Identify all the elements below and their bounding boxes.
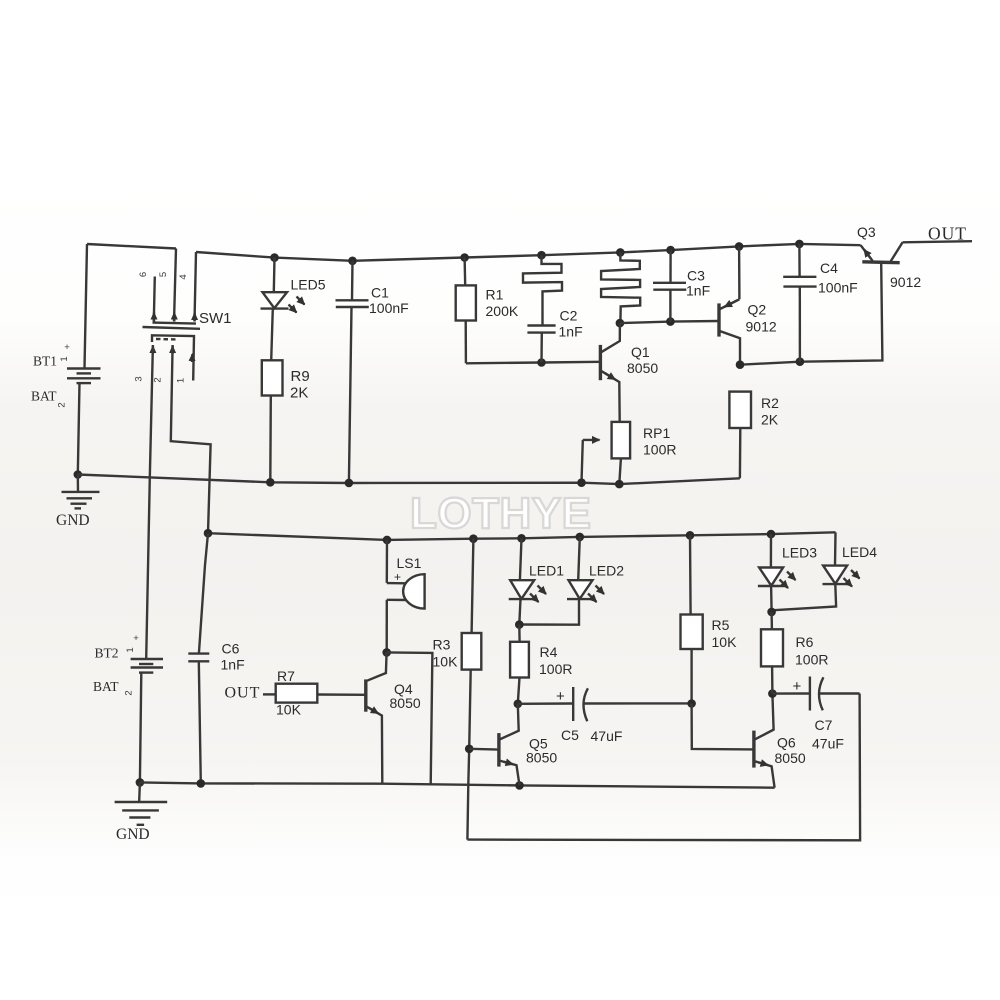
wire: SW1 pin 3 down to BT2 positive (146, 345, 153, 659)
svg-text:C4: C4 (820, 260, 838, 276)
switch SW1 (134, 249, 232, 384)
capacitor C6 (188, 533, 244, 783)
svg-text:1nF: 1nF (221, 657, 245, 673)
node: Q2 collector / R2 junction (736, 360, 745, 369)
svg-text:200K: 200K (486, 303, 519, 319)
SW1 pin 3 arrow (152, 346, 154, 354)
capacitor C3 (653, 250, 710, 322)
node: R6 / C7 / Q6 collector junction (768, 689, 777, 698)
SW1 slider dashed contact (156, 338, 176, 341)
svg-text:BT1: BT1 (33, 354, 57, 369)
svg-text:+: + (394, 570, 401, 584)
svg-text:8050: 8050 (775, 750, 806, 766)
svg-text:3: 3 (134, 376, 145, 381)
node: R5 / C5 / Q6 base junction (687, 699, 696, 708)
resistor R5 (681, 535, 738, 703)
wire: collector node over and down to emitter rail (387, 652, 433, 784)
battery BT2 (131, 659, 163, 673)
node: R3 / Q5 base junction (465, 745, 474, 754)
capacitor C5 (518, 687, 692, 744)
node: C3 bottom junction (666, 317, 675, 326)
SW1 body bracket (152, 335, 194, 380)
SW1 contact bar lower (143, 327, 201, 329)
node: R4 / C5 / Q5 collector junction (514, 700, 523, 709)
transistor Q1 (600, 323, 658, 422)
svg-text:9012: 9012 (746, 319, 777, 335)
node: R3 top junction (469, 534, 478, 543)
svg-text:OUT: OUT (225, 685, 261, 702)
battery BT1 (67, 369, 101, 384)
svg-text:C1: C1 (371, 285, 389, 301)
svg-text:9012: 9012 (890, 274, 921, 290)
wire: bottom rail of top section (78, 475, 740, 485)
svg-text:R6: R6 (796, 634, 814, 650)
resistor R6 (761, 612, 828, 694)
svg-text:C5: C5 (561, 727, 579, 743)
svg-text:+: + (133, 633, 139, 644)
SW1 pin 4 lead (195, 252, 197, 322)
svg-text:100nF: 100nF (369, 300, 409, 316)
BT1 pin 1 label with plus (59, 342, 70, 362)
transistor Q6 (754, 694, 806, 788)
transistor Q3 (857, 224, 921, 290)
node: SW1 pin2 / C6 junction (204, 529, 213, 538)
svg-text:10K: 10K (712, 634, 738, 650)
wire: BT1 negative lead down to ground node (78, 383, 80, 474)
svg-text:47uF: 47uF (812, 736, 844, 752)
svg-text:1: 1 (125, 647, 136, 652)
resistor R9 (262, 360, 310, 401)
svg-text:1: 1 (59, 356, 70, 361)
wire: feedback bottom rail to C7 negative (467, 694, 860, 841)
LED LED5 (261, 258, 326, 313)
LED LED4 (823, 532, 878, 586)
svg-text:8050: 8050 (627, 360, 658, 376)
svg-text:100R: 100R (795, 652, 828, 668)
svg-text:Q1: Q1 (631, 344, 650, 360)
SW1 pin 6 lead (154, 277, 155, 322)
svg-text:4: 4 (178, 274, 189, 279)
svg-text:2: 2 (57, 402, 68, 407)
wire: R9 to bottom rail (269, 396, 272, 483)
wire: LED4 cathode down and over to LED3 junction (772, 584, 836, 610)
SW1 contact bar upper (153, 323, 197, 324)
svg-text:OUT: OUT (928, 224, 967, 244)
wire: Q1 base line (466, 362, 601, 364)
SW1 pin 1 arrow (191, 354, 194, 362)
svg-text:RP1: RP1 (643, 425, 670, 441)
resistor R7 (263, 668, 366, 718)
wire: bottom rail (emitter rail) (140, 782, 775, 787)
resistor R2 (729, 392, 779, 479)
svg-text:C7: C7 (815, 717, 833, 733)
node: C2 / base junction (537, 358, 546, 367)
wire: BT2 negative lead to ground node (140, 673, 141, 783)
svg-text:100R: 100R (539, 661, 572, 677)
wire: BT1 positive lead up to top-left corner (85, 244, 88, 368)
resistor R4 (510, 625, 572, 704)
svg-text:BAT: BAT (93, 679, 119, 694)
wire: LED3 cathode to junction (770, 586, 773, 612)
svg-text:C3: C3 (687, 268, 705, 284)
svg-text:5: 5 (158, 272, 169, 277)
node: L1 top junction (537, 251, 546, 260)
node: C4 top junction (795, 240, 804, 249)
node: Q5 emitter junction (515, 781, 524, 790)
node: BT1 / ground rail junction (74, 470, 83, 479)
node: LS1 / Q4 collector junction (382, 648, 391, 657)
node: RP1 wiper junction (577, 478, 586, 487)
svg-text:LED5: LED5 (291, 277, 326, 293)
transistor Q5 (469, 704, 557, 786)
SW1 pin 2 arrow (171, 346, 173, 354)
node: LED3 top junction (767, 530, 776, 539)
SW1 pin 5 lead (174, 249, 176, 322)
inductor L2 (meander) (601, 252, 640, 323)
wire: SW1 pin 2 down and over to lower supply rail (171, 345, 211, 533)
svg-text:LED1: LED1 (529, 563, 564, 579)
svg-text:R7: R7 (277, 668, 295, 684)
wire: Q2 collector rail to Q3 base (740, 264, 882, 365)
svg-text:R3: R3 (433, 637, 451, 653)
svg-text:100R: 100R (643, 442, 676, 458)
node: LS1 top junction (383, 536, 392, 545)
wire: top-left rail segment from BT1 corner to SW1 pin 5 (87, 244, 176, 249)
svg-text:1nF: 1nF (559, 324, 583, 340)
ground GND (top section) (56, 475, 100, 530)
wire: LED5 cathode to R9 (271, 309, 273, 361)
resistor R1 (456, 258, 519, 364)
wire: junction down and over to Q6 base (692, 704, 754, 750)
wire: lower supply rail (208, 532, 836, 540)
svg-text:LED4: LED4 (842, 544, 877, 560)
node: LED1/LED2 cathode junction (515, 620, 524, 629)
node: BT2 / bottom rail junction (136, 778, 145, 787)
node: C4 bottom junction (796, 357, 805, 366)
wire: LED1 cathode to junction (519, 599, 520, 624)
capacitor C7 (772, 677, 859, 752)
svg-text:Q6: Q6 (777, 735, 796, 751)
svg-text:BT2: BT2 (95, 646, 119, 661)
resistor R3 (433, 539, 482, 840)
svg-text:GND: GND (56, 512, 90, 529)
node: L2 top junction (616, 248, 625, 257)
svg-text:LS1: LS1 (397, 555, 422, 571)
LED LED1 (509, 538, 565, 602)
transistor Q4 (366, 652, 421, 783)
svg-text:R5: R5 (712, 617, 730, 633)
svg-text:LED3: LED3 (782, 545, 817, 561)
svg-text:10K: 10K (276, 702, 302, 718)
node: C3 top junction (666, 246, 675, 255)
svg-text:GND: GND (116, 826, 150, 843)
svg-text:SW1: SW1 (199, 310, 232, 327)
node: LED3/LED4 cathode junction (767, 608, 776, 617)
svg-text:8050: 8050 (390, 695, 421, 711)
node: LED1 top junction (517, 534, 526, 543)
svg-text:C6: C6 (222, 641, 240, 657)
inductor L1 (meander) (523, 255, 562, 325)
node: L2 bottom / Q1 collector junction (616, 319, 625, 328)
svg-text:BAT: BAT (31, 389, 57, 404)
node: LED2 top junction (576, 533, 585, 542)
svg-text:Q2: Q2 (748, 302, 767, 318)
capacitor C2 (527, 308, 582, 363)
ground GND (bottom section) (115, 782, 168, 843)
wire: Q3 collector to OUT (903, 241, 972, 242)
svg-text:+: + (556, 688, 565, 705)
svg-text:2: 2 (124, 690, 135, 695)
wire: LS1 bottom to Q4 collector node (386, 600, 388, 652)
wire: LED2 cathode over to LED1 junction (519, 599, 579, 625)
node: C6 bottom junction (197, 779, 206, 788)
node: C1 bottom junction (345, 479, 354, 488)
svg-text:C2: C2 (560, 308, 578, 324)
svg-text:10K: 10K (433, 654, 459, 670)
svg-text:6: 6 (138, 272, 149, 277)
svg-text:LOTHYE: LOTHYE (410, 489, 591, 538)
svg-text:Q3: Q3 (857, 224, 876, 240)
svg-text:1: 1 (176, 378, 187, 383)
LED LED3 (758, 534, 817, 588)
svg-text:2K: 2K (290, 385, 308, 402)
svg-text:LED2: LED2 (589, 563, 624, 579)
node: Q2 emitter junction (735, 242, 744, 251)
node: LED5 top junction (270, 253, 279, 262)
node: R5 top junction (686, 531, 695, 540)
node: R1 top junction (460, 253, 469, 262)
svg-text:R4: R4 (540, 644, 558, 660)
BT2 pin 1 label with plus (125, 633, 139, 653)
wire: L2 bottom to C3 bottom to Q2 base (620, 321, 719, 323)
capacitor C4 (783, 244, 858, 362)
svg-text:2K: 2K (761, 412, 779, 428)
node: R9 bottom junction (266, 478, 275, 487)
svg-text:2: 2 (153, 377, 164, 382)
svg-text:8050: 8050 (526, 750, 557, 766)
wire: top supply rail (196, 244, 861, 261)
capacitor C1 (336, 261, 409, 483)
svg-text:1nF: 1nF (686, 283, 710, 299)
transistor Q2 (719, 246, 777, 364)
svg-text:100nF: 100nF (818, 280, 858, 296)
LED LED2 (567, 537, 624, 602)
node: RP1 bottom junction (615, 480, 624, 489)
svg-text:+: + (793, 678, 802, 695)
node: C1 top junction (348, 257, 357, 266)
svg-text:R9: R9 (291, 368, 310, 385)
potentiometer RP1 (582, 422, 677, 484)
svg-text:R1: R1 (486, 287, 504, 303)
loudspeaker LS1 (387, 540, 425, 609)
svg-text:R2: R2 (761, 395, 779, 411)
svg-text:47uF: 47uF (591, 728, 623, 744)
svg-text:+: + (64, 342, 70, 353)
